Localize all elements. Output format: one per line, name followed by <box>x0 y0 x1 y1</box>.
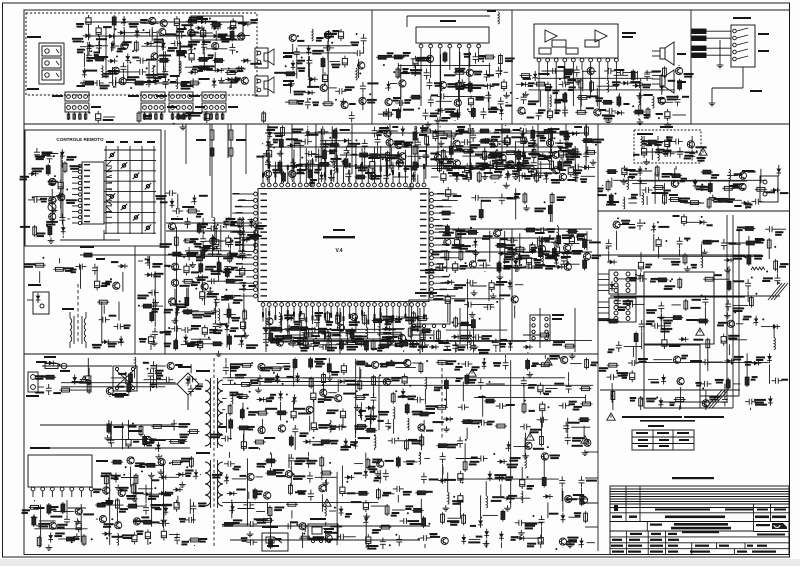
resistor R154 <box>550 192 565 222</box>
resistor R157 <box>505 244 526 266</box>
resistor R18 <box>285 100 304 105</box>
capacitor C308 <box>618 301 645 311</box>
wire <box>40 505 42 548</box>
cap-electrolytic C263 <box>458 493 463 518</box>
resistor R26 <box>467 107 475 119</box>
capacitor C128 <box>223 218 252 229</box>
inductor L28 <box>280 312 294 325</box>
ground <box>503 182 510 188</box>
capacitor C97 <box>294 139 312 145</box>
wire <box>378 376 380 430</box>
cap-electrolytic C120 <box>462 163 484 175</box>
resistor R158 <box>457 318 480 330</box>
wire section divider top x372 <box>371 10 373 124</box>
diode D38 <box>267 126 282 139</box>
resistor R223 <box>345 367 362 391</box>
note text <box>607 413 724 422</box>
transistor Q28 <box>676 65 694 78</box>
capacitor C196 <box>137 290 159 312</box>
diode D60 <box>498 249 517 256</box>
diode D42 <box>320 138 351 143</box>
cap-electrolytic C207 <box>126 420 139 449</box>
capacitor C201 <box>143 361 157 385</box>
resistor R34 <box>376 52 404 66</box>
cap-electrolytic C168 <box>471 280 508 292</box>
resistor R197 <box>107 420 124 434</box>
resistor R15 <box>321 57 325 80</box>
resistor R215 <box>58 537 76 543</box>
capacitor C303 <box>677 237 691 257</box>
wire <box>105 26 107 78</box>
inductor L36 <box>408 418 409 430</box>
cap-electrolytic C270 <box>540 401 550 427</box>
resistor R264 <box>286 502 298 518</box>
diode D73 <box>92 340 124 349</box>
transformer T2 standby <box>196 452 223 508</box>
resistor R67 <box>20 225 37 237</box>
transistor Q108 <box>565 494 589 503</box>
fuse F1 <box>42 356 112 372</box>
zener ZD2 <box>121 16 139 44</box>
diode bridge DB1 <box>150 366 203 410</box>
transistor Q29 <box>687 141 706 153</box>
transistor Q97 <box>418 424 433 450</box>
resistor R297 <box>663 253 687 266</box>
transistor Q110 <box>549 355 567 364</box>
diode D24 <box>491 107 504 120</box>
wire <box>108 439 187 441</box>
capacitor C176 <box>304 327 332 333</box>
cap-electrolytic C311 <box>721 334 747 346</box>
wire remote rows <box>106 160 112 213</box>
capacitor C72 <box>677 147 698 159</box>
ground <box>658 314 665 320</box>
capacitor C247 <box>323 522 342 543</box>
ground <box>288 81 295 87</box>
diode D8 <box>161 40 177 70</box>
resistor R144 <box>431 250 448 272</box>
cap-electrolytic C291 <box>673 214 687 226</box>
diode D112 <box>470 495 483 528</box>
capacitor C208 <box>108 421 114 447</box>
diode D21 <box>301 45 311 77</box>
transistor Q46 <box>264 169 282 182</box>
capacitor C29 <box>353 50 364 78</box>
diode D86 <box>359 406 375 429</box>
ground <box>31 514 38 520</box>
capacitor C159 <box>499 194 517 205</box>
wire rail right of IC 3 <box>435 251 592 253</box>
inductor L30 <box>354 318 368 340</box>
inductor L39 <box>378 407 395 434</box>
resistor R228 <box>396 360 429 374</box>
inductor L16 <box>628 193 644 205</box>
ground <box>179 482 186 488</box>
resistor R78 <box>525 171 539 183</box>
resistor R95 <box>490 152 504 158</box>
zener ZD27 <box>230 504 255 514</box>
wire <box>440 54 442 116</box>
capacitor C211 <box>179 499 196 523</box>
transistor Q40 <box>580 496 587 503</box>
resistor R177 <box>398 342 414 352</box>
cap-electrolytic C284 <box>527 535 543 548</box>
resistor R225 <box>309 377 313 389</box>
resistor R51 <box>684 197 724 209</box>
cap-electrolytic C91 <box>256 147 275 168</box>
ground <box>497 274 504 280</box>
capacitor C79 <box>28 197 47 203</box>
resistor R214 <box>22 500 41 514</box>
resistor R13 <box>86 36 105 62</box>
capacitor C283 <box>496 403 515 409</box>
resistor R299 <box>669 398 686 410</box>
resistor R19 <box>262 111 266 123</box>
wire <box>32 196 64 198</box>
transistor Q27 <box>658 79 678 105</box>
diode D82 <box>155 505 169 515</box>
cap-electrolytic C22 <box>322 72 327 84</box>
wire rail ps 2 <box>46 447 190 449</box>
capacitor C188 <box>468 330 490 354</box>
wire <box>293 364 295 387</box>
resistor R253 <box>408 516 431 528</box>
resistor R82 <box>479 139 496 162</box>
zener ZD23 <box>185 469 201 479</box>
capacitor C88 <box>513 125 531 134</box>
resistor R240 <box>319 440 338 445</box>
ground <box>189 262 196 268</box>
ground <box>582 450 589 456</box>
cap-electrolytic C175 <box>299 311 304 331</box>
wire <box>519 233 521 263</box>
transistor Q57 <box>191 282 208 306</box>
resistor R283 <box>539 355 551 367</box>
ground <box>483 541 490 547</box>
ground <box>247 531 254 537</box>
resistor R234 <box>397 438 422 451</box>
transistor Q60 <box>169 298 189 308</box>
resistor R180 <box>365 340 378 352</box>
diode D80 <box>164 487 183 505</box>
transistor Q106 <box>240 473 263 480</box>
ground <box>150 382 157 388</box>
cap-electrolytic C116 <box>522 167 561 179</box>
capacitor C289 <box>651 323 673 333</box>
diode D53 <box>249 218 266 230</box>
capacitor C20 <box>117 67 158 78</box>
diode D41 <box>563 131 579 140</box>
capacitor C215 <box>151 505 170 526</box>
resistor R230 <box>230 362 253 368</box>
transistor Q16 <box>358 62 365 69</box>
wire rail ps 1 <box>40 424 175 426</box>
resistor R315 <box>744 236 763 266</box>
capacitor C304 <box>721 239 741 250</box>
capacitor C84 <box>306 129 328 150</box>
resistor R113 <box>454 149 474 153</box>
inductor L17 <box>627 177 647 190</box>
capacitor C139 <box>201 224 218 257</box>
ground <box>532 141 539 147</box>
capacitor C204 <box>148 369 164 391</box>
ground <box>51 207 58 213</box>
resistor R274 <box>425 399 447 410</box>
transistor Q13 <box>289 34 304 52</box>
diode D45 <box>327 126 337 154</box>
transistor Q67 <box>465 260 487 269</box>
warning triangle W9 <box>80 376 88 383</box>
zener ZD8 <box>439 158 454 168</box>
resistor R314 <box>611 390 615 411</box>
resistor R224 <box>238 426 255 450</box>
cap-electrolytic C121 <box>559 165 574 177</box>
resistor R286 <box>436 360 456 365</box>
ground <box>523 205 530 211</box>
resistor R100 <box>302 163 330 167</box>
resistor R45 <box>668 79 682 91</box>
resistor R120 <box>231 309 246 335</box>
capacitor C172 <box>263 335 291 346</box>
resistor R271 <box>254 503 274 523</box>
resistor R202 <box>101 498 119 524</box>
transistor Q39 <box>369 172 376 182</box>
resistor R91 <box>430 149 445 168</box>
resistor R178 <box>523 333 551 337</box>
resistor R192 <box>35 375 56 380</box>
capacitor C275 <box>525 515 545 544</box>
diode D46 <box>379 126 406 136</box>
inductor L24 <box>549 225 574 239</box>
cap-electrolytic C117 <box>488 135 523 147</box>
ground <box>207 288 214 294</box>
resistor R85 <box>494 125 512 134</box>
resistor R36 <box>633 110 650 120</box>
cap-electrolytic C255 <box>351 500 388 512</box>
capacitor C185 <box>492 338 507 352</box>
resistor R210 <box>134 473 138 504</box>
cap-electrolytic C113 <box>559 148 576 161</box>
capacitor C52 <box>395 81 406 106</box>
resistor R103 <box>308 149 337 161</box>
capacitor C238 <box>373 470 388 482</box>
diode D37 <box>60 149 77 168</box>
diode D100 <box>488 471 507 481</box>
resistor R132 <box>228 334 246 350</box>
capacitor C129 <box>189 218 206 246</box>
inductor L27 <box>330 339 353 351</box>
ground <box>104 435 111 441</box>
resistor R84 <box>532 139 550 160</box>
transistor Q19 <box>439 82 458 89</box>
capacitor C200 <box>144 375 174 383</box>
ground <box>255 387 262 393</box>
inductor L4 <box>85 66 115 78</box>
capacitor C180 <box>314 316 320 327</box>
resistor R268 <box>263 454 286 478</box>
resistor R22 <box>441 113 461 122</box>
diode D68 <box>284 316 301 335</box>
diode D99 <box>345 472 363 482</box>
capacitor C37 <box>464 53 479 64</box>
ground <box>514 265 521 271</box>
resistor R166 <box>282 336 307 348</box>
resistor R90 <box>279 137 298 163</box>
resistor R107 <box>449 131 463 156</box>
transistor Q105 <box>319 485 326 512</box>
resistor R41 <box>563 92 567 116</box>
resistor R68 <box>63 161 81 173</box>
diode D62 <box>545 265 565 270</box>
capacitor C290 <box>607 341 641 353</box>
resistor R21 <box>137 111 152 123</box>
resistor R221 <box>254 437 276 450</box>
transistor Q66 <box>512 253 530 260</box>
resistor R173 <box>371 339 397 352</box>
resistor R233 <box>355 402 367 428</box>
ground <box>73 533 80 539</box>
transistor Q103 <box>273 454 295 478</box>
capacitor C148 <box>155 190 176 200</box>
diode D31 <box>770 188 788 194</box>
transistor Q17 <box>324 30 339 60</box>
capacitor C61 <box>555 106 569 117</box>
op-amp U4 remote IC <box>72 162 112 225</box>
capacitor C265 <box>477 395 494 428</box>
capacitor C55 <box>516 93 539 105</box>
resistor R295 <box>455 373 469 385</box>
resistor R14 <box>225 68 244 89</box>
capacitor C234 <box>388 438 414 444</box>
inductor L34 <box>117 533 134 545</box>
capacitor C46 <box>498 97 513 108</box>
wire <box>101 302 103 343</box>
resistor R185 <box>553 341 576 352</box>
resistor R121 <box>223 289 243 325</box>
resistor R257 <box>377 488 395 500</box>
op-amp U8 <box>308 518 338 543</box>
resistor R31 <box>378 109 399 116</box>
diode D49 <box>574 165 596 174</box>
resistor R171 <box>346 341 369 350</box>
cap-electrolytic C15 <box>96 25 112 37</box>
resistor R98 <box>550 159 554 171</box>
resistor R281 <box>441 512 462 524</box>
cap-electrolytic C169 <box>433 294 450 323</box>
inductor L3 <box>153 65 169 78</box>
resistor R304 <box>672 299 701 311</box>
inductor L12 <box>751 267 765 270</box>
wire <box>80 504 82 543</box>
diode D64 <box>508 280 524 290</box>
wire <box>432 168 560 170</box>
transistor Q96 <box>258 427 265 434</box>
resistor R49 <box>520 74 532 78</box>
diode bridge D-block <box>191 16 243 40</box>
resistor R219 <box>37 536 41 548</box>
ground <box>643 159 650 165</box>
resistor R57 <box>717 198 742 203</box>
capacitor C280 <box>559 401 577 409</box>
transistor Q22 <box>454 99 461 120</box>
resistor R27 <box>392 52 410 77</box>
resistor R168 <box>377 332 407 341</box>
cap-electrolytic C54 <box>538 108 552 120</box>
diode D67 <box>379 321 405 331</box>
wire <box>80 265 82 289</box>
wire rail above IC 2 <box>268 146 560 148</box>
ground <box>152 78 159 84</box>
ground <box>521 138 528 144</box>
capacitor C248 <box>421 473 427 484</box>
resistor R254 <box>222 519 242 526</box>
ground <box>277 326 284 332</box>
resistor R140 <box>525 228 545 234</box>
capacitor C30 <box>360 82 379 110</box>
ground <box>218 77 225 83</box>
capacitor C288 <box>690 359 723 365</box>
wire <box>185 250 231 252</box>
resistor R220 <box>33 503 51 515</box>
zener ZD28 <box>212 474 246 484</box>
capacitor C302 <box>709 384 728 407</box>
diode D105 <box>476 529 489 548</box>
transistor Q40 <box>559 158 575 181</box>
cap-electrolytic C225 <box>311 378 326 403</box>
inductor L29 <box>380 336 412 348</box>
inductor L14 <box>729 169 742 202</box>
resistor R74 <box>483 149 498 161</box>
capacitor C160 <box>471 195 503 202</box>
cap-electrolytic C19 <box>174 16 193 40</box>
diode D77 <box>176 470 194 477</box>
capacitor C112 <box>372 127 389 138</box>
capacitor C62 <box>559 66 576 91</box>
capacitor C106 <box>265 158 271 169</box>
capacitor C40 <box>426 79 442 90</box>
capacitor C251 <box>297 490 314 501</box>
resistor R65 <box>633 165 672 178</box>
flyback dashed box <box>634 126 701 163</box>
resistor R66 <box>32 164 56 177</box>
resistor R308 <box>686 319 709 323</box>
wire <box>177 194 179 209</box>
cap-electrolytic C51 <box>413 56 431 68</box>
capacitor C245 <box>288 454 308 486</box>
resistor R33 <box>393 67 421 79</box>
wire <box>637 361 769 363</box>
wire <box>284 328 404 330</box>
cap-electrolytic C243 <box>366 534 371 548</box>
remote control box <box>25 130 161 246</box>
cap-electrolytic C165 <box>526 255 541 267</box>
capacitor C298 <box>765 226 786 236</box>
capacitor C244 <box>400 512 422 525</box>
transistor Q10 <box>202 41 219 72</box>
capacitor C59 <box>564 66 597 78</box>
wire section line y354 <box>24 353 598 355</box>
cap-electrolytic C151 <box>454 237 459 249</box>
title block <box>610 486 789 555</box>
transistor Q11 <box>143 20 167 27</box>
connector CN12 CRT socket <box>598 270 636 294</box>
resistor R101 <box>329 128 350 161</box>
note above title block <box>672 477 714 479</box>
wire rail above IC 1 <box>265 132 588 134</box>
cap-electrolytic C230 <box>286 399 311 423</box>
transistor Q89 <box>36 522 67 529</box>
capacitor C102 <box>468 146 484 179</box>
